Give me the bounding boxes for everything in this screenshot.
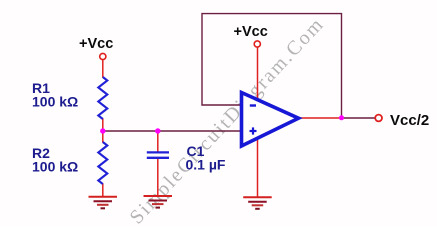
wire R1 to R2 through node (102, 119, 104, 143)
wire C1 bottom to ground (157, 158, 159, 196)
node junction capacitor tap (155, 128, 160, 133)
svg-text:0.1 µF: 0.1 µF (186, 157, 226, 173)
wire op-amp power rail lower (257, 139, 259, 197)
wire +Vcc drop to R1 (102, 60, 104, 78)
op-amp U1 (242, 93, 299, 147)
output terminal Vcc/2 (375, 115, 382, 122)
node junction output (339, 115, 344, 120)
wire node A horizontal (103, 130, 242, 132)
wire feedback loop (202, 14, 342, 118)
power terminal +Vcc left (100, 53, 106, 59)
node junction divider (100, 128, 105, 133)
ground below R2 (89, 197, 118, 209)
ground below op-amp (243, 197, 272, 209)
wire node to C1 top (157, 131, 159, 152)
wire output to terminal (342, 117, 375, 119)
wire R2 to ground (102, 184, 104, 197)
resistor R2 (98, 142, 107, 184)
power terminal +Vcc op-amp (254, 41, 260, 47)
svg-text:100 kΩ: 100 kΩ (32, 94, 78, 110)
svg-text:+Vcc: +Vcc (234, 24, 268, 40)
wire op-amp output (299, 117, 342, 119)
wire op-amp power rail upper (257, 47, 259, 99)
resistor R1 (98, 77, 107, 119)
svg-text:+Vcc: +Vcc (79, 36, 113, 52)
svg-text:100 kΩ: 100 kΩ (32, 159, 78, 175)
capacitor C1 (147, 152, 169, 157)
svg-text:Vcc/2: Vcc/2 (390, 112, 429, 129)
ground below C1 (144, 196, 173, 208)
